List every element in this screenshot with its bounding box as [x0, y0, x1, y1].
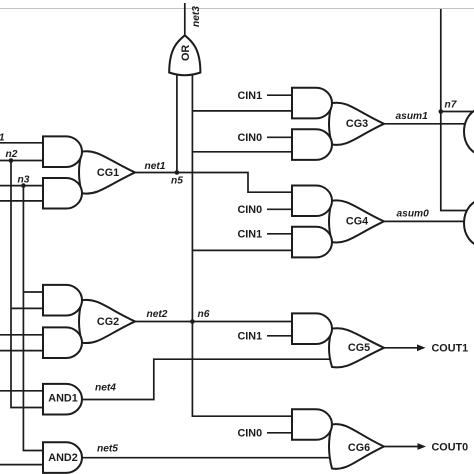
and-gate AND1: [43, 384, 82, 415]
svg-text:n6: n6: [198, 309, 210, 320]
wire net2/n6 vertical bus: [192, 70, 292, 416]
svg-text:net4: net4: [95, 383, 116, 394]
or-gate CG5 body: [329, 328, 384, 367]
svg-text:CG6: CG6: [348, 442, 370, 454]
svg-text:n3: n3: [18, 175, 30, 186]
wire CG1 lower input: [0, 200, 43, 202]
wire n7 branch to U1: [441, 111, 472, 113]
wire asum1 from CG3 to U1: [384, 123, 472, 125]
and-gate AND2: [43, 442, 82, 473]
wire AND2 input B: [0, 464, 43, 466]
and-gate CG1 lower: [43, 178, 82, 209]
wire CIN1 to CG4: [267, 233, 292, 235]
node n5 junction dot: [175, 170, 180, 175]
wire CIN0 to CG4: [267, 208, 292, 210]
wire CG2 lower AND input B: [0, 350, 43, 352]
or-gate CG1 body: [79, 151, 135, 193]
node n6 junction dot: [190, 319, 195, 324]
wire net3 (OR output up): [184, 3, 186, 35]
svg-text:CIN1: CIN1: [238, 331, 263, 343]
svg-text:COUT1: COUT1: [432, 343, 469, 355]
wire n6 branch to CG4 lower: [192, 249, 292, 251]
svg-text:CIN1: CIN1: [238, 90, 263, 102]
or-gate CG3 body: [329, 103, 384, 145]
or-gate CG2 body: [79, 300, 135, 343]
svg-text:asum0: asum0: [397, 209, 430, 220]
wire asum0 from CG4 to U2: [384, 220, 472, 222]
svg-text:CIN0: CIN0: [238, 428, 263, 440]
and-gate CG1 upper: [43, 136, 82, 167]
svg-text:net3: net3: [191, 6, 202, 27]
node n7 junction dot: [439, 109, 444, 114]
wire n2 vertical: [11, 161, 43, 408]
or-gate CG4 body: [329, 200, 384, 242]
arrowhead COUT0: [418, 443, 427, 450]
svg-text:asum1: asum1: [396, 111, 429, 122]
or-gate CG6 body: [329, 424, 384, 469]
wire n2 branch to CG2: [11, 307, 43, 309]
wire n6 branch to CG3 upper: [192, 110, 292, 112]
or-gate OR (vertical): [169, 35, 200, 75]
wire n3 vertical: [23, 186, 43, 451]
and-gate CG4 lower: [292, 227, 332, 258]
svg-text:COUT0: COUT0: [432, 441, 469, 453]
wire n1 input: [0, 142, 43, 144]
and-gate CG4 upper: [292, 185, 332, 216]
node n3 junction dot: [21, 183, 26, 188]
svg-text:n5: n5: [171, 176, 183, 187]
svg-text:CG1: CG1: [97, 167, 119, 179]
svg-text:OR: OR: [180, 45, 192, 61]
svg-text:n1: n1: [0, 133, 5, 144]
wire n7 vertical: [441, 9, 472, 211]
wire n3 branch to CG2: [23, 291, 43, 293]
svg-text:net2: net2: [147, 309, 168, 320]
wire net5 from AND2 to CG6: [82, 457, 334, 459]
wire n6 branch to CG3 lower: [192, 151, 292, 153]
wire n3 input: [0, 185, 43, 187]
gate U1 (clipped at right edge): [464, 109, 474, 155]
and-gate CG3 upper: [292, 88, 332, 119]
faint scan line top: [0, 8, 474, 10]
svg-text:CG3: CG3: [346, 118, 368, 130]
wire net1 from CG1 to n5 and CG4: [135, 173, 292, 193]
wire net4 from AND1 to CG5: [82, 359, 334, 399]
svg-text:CIN0: CIN0: [238, 204, 263, 216]
wire COUT1 output: [384, 347, 418, 349]
wire n2 input: [0, 160, 43, 162]
and-gate CG2 lower: [43, 327, 82, 358]
and-gate CG5 input AND: [292, 313, 332, 344]
wire CG2 lower AND input A: [0, 334, 43, 336]
gate U2 (clipped at right edge): [464, 200, 474, 246]
wire CIN0 to CG6: [267, 432, 292, 434]
svg-text:n2: n2: [6, 149, 18, 160]
arrowhead COUT1: [417, 344, 426, 351]
svg-text:CG5: CG5: [348, 342, 370, 354]
svg-text:CIN1: CIN1: [238, 229, 263, 241]
and-gate CG2 upper: [43, 285, 82, 316]
svg-text:AND1: AND1: [48, 393, 77, 405]
and-gate CG3 lower: [292, 129, 332, 160]
svg-text:CG4: CG4: [346, 216, 368, 228]
wire CIN1 to CG5: [267, 335, 292, 337]
svg-text:n7: n7: [445, 100, 458, 111]
svg-text:net5: net5: [97, 444, 118, 455]
wire net2 from CG2 through n6 to CG5: [135, 321, 292, 323]
and-gate CG6 input AND: [292, 409, 332, 440]
wire CIN1 to CG3: [267, 94, 292, 96]
wire CIN0 to CG3: [267, 136, 292, 138]
svg-text:AND2: AND2: [48, 452, 77, 464]
svg-text:CG2: CG2: [97, 316, 119, 328]
wire AND1 input A: [0, 390, 43, 392]
node n2 junction dot: [9, 158, 14, 163]
wire COUT0 output: [384, 446, 419, 448]
wire node n5 to OR input: [176, 70, 178, 173]
svg-text:net1: net1: [145, 161, 166, 172]
svg-text:CIN0: CIN0: [238, 132, 263, 144]
